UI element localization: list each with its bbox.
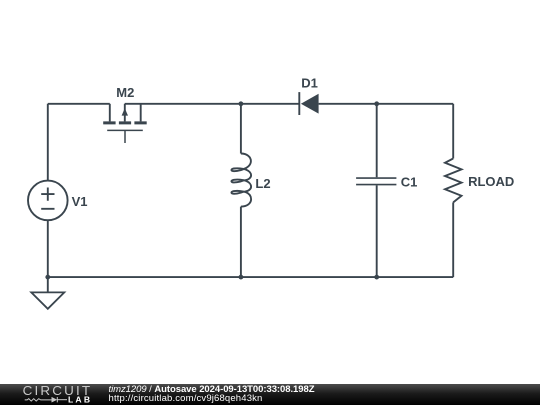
svg-text:L2: L2 — [255, 176, 270, 191]
svg-text:RLOAD: RLOAD — [468, 174, 514, 189]
svg-text:V1: V1 — [72, 194, 88, 209]
svg-text:D1: D1 — [301, 76, 318, 91]
svg-text:C1: C1 — [401, 175, 418, 190]
svg-text:M2: M2 — [116, 85, 134, 100]
svg-text:LAB: LAB — [68, 395, 92, 405]
